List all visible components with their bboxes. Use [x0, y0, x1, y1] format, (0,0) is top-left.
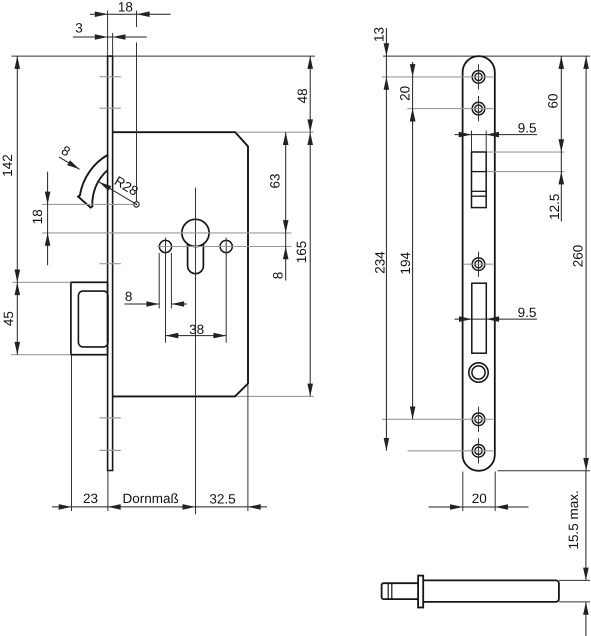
- svg-text:Dornmaß: Dornmaß: [122, 491, 178, 506]
- pivot horizontal extension: [42, 203, 134, 205]
- bottom dimension line 23 Dornmass 32.5: [52, 506, 267, 508]
- fixing hole right crosshair: [225, 238, 227, 256]
- deadbolt top extension: [13, 281, 71, 283]
- hook bolt arc: [78, 155, 108, 208]
- hole center extension lines: [165, 253, 167, 343]
- deadbolt body rounded face: [78, 291, 108, 347]
- dimension 15.5 max: [585, 471, 587, 581]
- svg-text:15.5 max.: 15.5 max.: [566, 490, 581, 549]
- plate bottom extension line: [498, 470, 591, 472]
- dimension 60: [560, 56, 562, 152]
- svg-text:9.5: 9.5: [518, 305, 537, 320]
- svg-text:8: 8: [270, 272, 285, 280]
- latch bolt detail lines: [472, 171, 487, 173]
- svg-text:13: 13: [371, 27, 386, 42]
- svg-text:32.5: 32.5: [209, 491, 235, 506]
- lock case outline: [113, 132, 248, 396]
- svg-text:142: 142: [0, 154, 15, 177]
- dimension 165 right: [309, 132, 311, 396]
- cylinder vertical centerline: [195, 188, 197, 515]
- faceplate front view outline: [463, 56, 495, 471]
- faceplate side view: [108, 56, 113, 470]
- svg-text:20: 20: [472, 491, 487, 506]
- dimension 194: [412, 109, 414, 420]
- faceplate screw-hole position ticks: [100, 76, 121, 78]
- svg-text:48: 48: [295, 88, 310, 103]
- cylinder horizontal centerline: [42, 232, 292, 234]
- dimension R28 leader: [99, 182, 137, 205]
- dimension 45 left: [16, 282, 18, 354]
- deadbolt bottom extension: [11, 354, 71, 356]
- spindle shaft: [423, 580, 559, 602]
- deadbolt front view: [71, 282, 108, 354]
- svg-text:38: 38: [189, 322, 204, 337]
- dimension 142 left: [16, 56, 18, 282]
- svg-text:12.5: 12.5: [547, 194, 562, 220]
- svg-text:20: 20: [397, 86, 412, 101]
- fixing hole left: [159, 240, 171, 252]
- fixing hole right: [220, 240, 232, 252]
- svg-text:23: 23: [83, 491, 98, 506]
- euro cylinder keyway: [188, 244, 204, 274]
- svg-text:3: 3: [75, 21, 83, 36]
- dimension 260: [585, 56, 587, 471]
- bottom extension case rear: [247, 384, 249, 511]
- dimension 12.5: [560, 152, 562, 222]
- spindle tip: [382, 583, 419, 599]
- dimension 48 right: [309, 56, 311, 132]
- latch cutout: [472, 152, 487, 208]
- dimension 20 plate width: [429, 506, 529, 508]
- dimension 20 hole spacing: [412, 62, 414, 77]
- svg-text:234: 234: [373, 251, 388, 274]
- screw holes front view: [472, 71, 485, 84]
- svg-text:60: 60: [545, 93, 560, 108]
- dimension 9.5 deadbolt cutout: [455, 318, 538, 320]
- dimension 234: [385, 77, 387, 451]
- latch cutout edge extensions: [471, 131, 473, 153]
- bottom extension faceplate: [107, 471, 109, 512]
- spindle tip detail lines: [387, 583, 389, 599]
- dimension 18 pivot-to-cylinder: [47, 172, 49, 266]
- svg-text:165: 165: [294, 241, 309, 264]
- case top extension line: [236, 131, 314, 133]
- hole edge extension lines: [158, 253, 160, 309]
- svg-text:18: 18: [118, 0, 133, 15]
- hook pivot point: [134, 202, 139, 207]
- spindle shaft extension lines: [559, 579, 590, 581]
- plate width extension lines: [462, 472, 464, 512]
- svg-text:8: 8: [59, 143, 73, 160]
- svg-text:8: 8: [125, 289, 133, 304]
- dimension 8 hook thickness leader: [59, 157, 80, 169]
- svg-text:63: 63: [267, 173, 282, 188]
- fixing holes horizontal centerline: [158, 246, 292, 248]
- dimension 13: [385, 28, 387, 77]
- spindle round hole: [469, 363, 488, 382]
- dimension 8 hole diameter: [125, 303, 160, 305]
- bottom extension deadbolt edge: [71, 356, 73, 512]
- dimension 63 right: [285, 132, 287, 233]
- fixing hole left crosshair: [165, 238, 167, 256]
- plate top extension line: [383, 55, 590, 57]
- extension faceplate left above: [107, 11, 109, 57]
- euro cylinder hole circle: [182, 219, 209, 246]
- hook pivot axis centerline: [136, 11, 138, 28]
- dimension 38 hole spacing: [166, 335, 227, 337]
- svg-text:45: 45: [1, 311, 16, 326]
- extension faceplate right above: [112, 33, 114, 56]
- deadbolt cutout: [472, 283, 487, 353]
- dimension 3 top: [73, 36, 147, 38]
- svg-text:18: 18: [30, 209, 45, 224]
- spindle collar: [418, 576, 423, 608]
- svg-text:194: 194: [398, 252, 413, 275]
- faceplate top extension line: [12, 55, 316, 57]
- dimension 9.5 latch cutout: [455, 134, 538, 136]
- dimension 8 cylinder-to-holes right: [285, 233, 287, 281]
- svg-text:260: 260: [571, 245, 586, 268]
- dimension 18 top: [90, 13, 171, 15]
- latch cutout right extensions: [487, 151, 564, 153]
- case bottom extension line: [236, 395, 314, 397]
- svg-text:9.5: 9.5: [518, 121, 537, 136]
